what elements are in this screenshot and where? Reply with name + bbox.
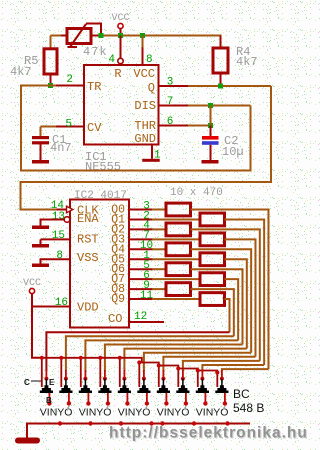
svg-text:16: 16 [55,297,68,309]
wire Q6 to resistor [152,268,166,270]
wire ENA to ground [41,220,65,226]
wire THR right [188,125,211,127]
svg-text:NE555: NE555 [85,160,121,174]
wire to R5 top [50,36,52,49]
pin ENA bubble [64,217,70,223]
svg-text:GND: GND [134,132,156,146]
wire resistor 2 to transistor T9 [225,219,265,365]
resistor 470 ohm #2 (output Q1) [200,213,225,226]
wire Q0 to resistor [152,209,166,211]
resistor 470 ohm #10 (output Q9) [200,293,225,306]
junction THR/C2 [208,123,213,128]
wire C2 to ground [210,145,212,160]
svg-text:47k: 47k [83,45,108,59]
wire CV left [41,126,57,128]
node bottom dot 3 [119,421,123,425]
svg-text:10µ: 10µ [222,145,244,159]
wire Q2 to resistor [152,228,166,230]
wire resistor 8 to transistor T3 [225,279,239,340]
pin stub CLK [57,209,67,211]
resistor 470 ohm #9 (output Q8) [166,283,191,296]
svg-text:ENA: ENA [77,212,99,226]
wire bottom rail [27,424,250,438]
svg-text:8: 8 [146,54,153,66]
resistor R5 [44,49,57,74]
node bottom dot 7 [225,421,229,425]
wire pin4 R [120,36,122,59]
transistor Q10 BC548 [216,373,218,388]
pin stub CV [55,126,84,128]
svg-text:5: 5 [65,119,72,131]
svg-text:VSS: VSS [77,251,99,265]
transistor Q6 BC548 [138,363,140,388]
pin stub C2 top [210,126,212,137]
wire VSS to ground [41,259,71,263]
wire VCC top rail [101,35,222,37]
svg-text:THR: THR [134,119,156,133]
wire Q to CLK loop [21,86,272,210]
pin stub 1 GND [151,144,153,159]
wire resistor 7 to transistor T4 [191,269,243,344]
svg-text:C: C [24,378,30,387]
wire VDD pin 16 [32,306,70,308]
capacitor C2 10u (polarized) [202,136,219,140]
svg-text:4: 4 [108,54,115,66]
wire resistor 6 to transistor T5 [225,259,247,348]
wire Q8 to resistor [152,288,166,290]
pin stub Q [159,85,190,87]
svg-text:DIS: DIS [134,99,156,113]
ground at ENA [32,226,49,230]
wire Q to right [188,85,271,87]
wire Q3 to resistor [152,238,200,240]
svg-text:CO: CO [108,312,122,326]
pin stub DIS [159,105,190,107]
svg-text:10 x 470: 10 x 470 [170,187,223,199]
junction VCC/rail [118,33,123,38]
junction pin8/rail [140,33,145,38]
svg-text:VCC: VCC [111,13,129,24]
svg-text:VINYÓ: VINYÓ [40,406,73,419]
svg-text:12: 12 [134,311,147,323]
transistor Q8 BC548 [177,369,179,388]
resistor 470 ohm #7 (output Q6) [166,263,191,276]
pin stub R4 bottom [220,73,222,86]
wire CV to C1 [40,127,42,137]
ground under C2 [202,160,219,164]
junction node TR/R5 [48,83,53,88]
wire resistor 10 to transistor T1 [225,299,230,332]
node bottom dot 2 [88,421,92,425]
IC IC2 4017 counter box [70,200,129,328]
svg-text:7: 7 [167,96,174,108]
pin stub 8 VCC [142,48,144,66]
wire Q9 to resistor [152,298,200,300]
wire DIS-THR vertical [210,106,212,126]
wire VCC stub [120,29,122,36]
svg-text:B: B [46,396,52,405]
svg-text:VINYÓ: VINYÓ [196,406,229,419]
svg-text:http://bsselektronika.hu: http://bsselektronika.hu [109,425,308,442]
ground under 555 [142,159,160,162]
ground at RST [32,244,49,248]
resistor 470 ohm #1 (output Q0) [166,203,191,216]
pin stub CO [129,321,164,323]
svg-text:Q9: Q9 [111,293,125,306]
svg-text:VCC: VCC [133,67,155,81]
ground at VSS [32,264,49,268]
wire resistor 1 to transistor T10 [191,210,269,370]
pin stub RST wire [41,238,71,240]
trimmer wiper diagonal [70,24,86,47]
node bottom dot 4 [149,421,153,425]
wire C1 to ground [40,144,42,160]
transistor Q4 BC548 [99,358,101,387]
svg-text:3: 3 [167,77,174,89]
ground (bottom) [15,438,40,444]
svg-text:VINYÓ: VINYÓ [79,406,112,419]
resistor 470 ohm #5 (output Q4) [166,243,191,256]
svg-text:VDD: VDD [77,301,99,315]
svg-text:TR: TR [87,80,101,94]
wire resistor 3 to transistor T8 [191,229,260,361]
svg-text:8: 8 [56,250,63,262]
svg-text:Q: Q [148,81,155,95]
wire pot left [51,35,62,37]
svg-text:11: 11 [140,290,154,302]
transistor Q5 BC548 [119,358,121,387]
trimmer potentiometer 47k body [67,29,91,44]
wire to pin 8 [142,36,144,48]
transistor Q2 BC548 [60,358,62,387]
svg-text:R: R [114,67,121,81]
svg-text:VINYÓ: VINYÓ [118,406,151,419]
resistor 470 ohm #8 (output Q7) [200,273,225,286]
svg-text:VCC: VCC [23,278,41,289]
svg-text:VINYÓ: VINYÓ [157,406,190,419]
wire Q1 to resistor [152,218,200,220]
pin stub THR [159,125,190,127]
node bottom dot 1 [58,421,62,425]
svg-text:BC: BC [233,387,250,401]
svg-text:IC2 4017: IC2 4017 [74,190,127,202]
transistor Q1 BC548 [41,358,43,387]
wire collector VCC rail (stepped) [42,358,218,373]
svg-text:548 B: 548 B [233,401,264,415]
wire VCC net to rail [32,294,42,358]
svg-text:4k7: 4k7 [10,65,32,79]
wire Q4 to resistor [152,248,166,250]
wire DIS right [188,105,251,107]
svg-text:6: 6 [167,116,174,128]
capacitor C1 4n7 [32,136,49,139]
wire Q5 to resistor [152,258,200,260]
wire resistor 4 to transistor T7 [225,239,256,356]
ground under C1 [32,160,49,164]
IC IC1 NE555 timer box [84,65,159,145]
svg-text:4n7: 4n7 [50,141,72,155]
pin 4 R inversion bubble [118,58,123,63]
transistor Q3 BC548 [80,358,82,387]
node bottom dot 5 [160,421,164,425]
pin stub pot right [91,35,101,37]
pin stub TR [55,85,84,87]
junction DIS/C2 [208,103,213,108]
resistor 470 ohm #4 (output Q3) [200,233,225,246]
resistor 470 ohm #6 (output Q5) [200,253,225,266]
transistor Q7 BC548 [158,366,160,388]
pin stub pot left [60,35,67,37]
transistor Q9 BC548 [197,371,199,388]
wire TR left [21,85,56,87]
wire TR-DIS loop [21,86,251,171]
svg-text:15: 15 [52,230,65,242]
svg-text:4k7: 4k7 [236,55,258,69]
node bottom dot 6 [192,421,196,425]
wire Q7 to resistor [152,278,200,280]
svg-text:2: 2 [66,74,73,86]
wire wiper to right terminal [86,24,101,36]
pin stub R4 top [220,36,222,49]
pin CLK clock triangle [67,206,73,212]
svg-text:CV: CV [87,121,102,135]
junction Q/R4 [218,84,223,89]
svg-text:RST: RST [77,233,99,247]
svg-text:13: 13 [52,211,65,223]
resistor 470 ohm #3 (output Q2) [166,223,191,236]
wire resistor 5 to transistor T6 [191,249,252,352]
svg-text:E: E [49,378,55,387]
resistor R4 [213,48,228,73]
wire resistor 9 to transistor T2 [191,289,234,336]
pin stub R5 bottom [50,74,52,86]
junction pot/rail [99,33,104,38]
